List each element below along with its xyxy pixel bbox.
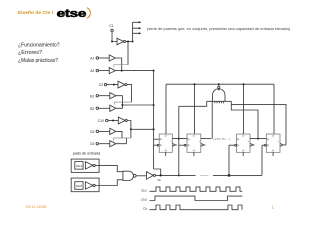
- node B1 label: [90, 94, 94, 98]
- nand input stubs: [215, 101, 224, 103]
- wire: [99, 107, 110, 109]
- wire: [136, 175, 146, 177]
- wire: [127, 85, 132, 103]
- junction: [112, 119, 114, 121]
- FF3 Q wedge: [250, 143, 253, 146]
- waveform labels: [141, 188, 148, 210]
- waveform Ck: [149, 205, 242, 210]
- nand U2 bubble: [133, 174, 136, 177]
- wire FF3 Q: [250, 139, 266, 145]
- wire FF2 clock drop: [193, 84, 195, 134]
- pin A2: [96, 69, 98, 71]
- FF2 bottom stub: [193, 152, 195, 156]
- wire wrap to FF4 EN: [262, 145, 265, 175]
- FF1 Q wedge: [172, 143, 175, 146]
- pin B2: [96, 107, 98, 109]
- node C2 label: [99, 83, 103, 87]
- wire rail to FF4 Q: [231, 104, 286, 145]
- wire FF1 Q riser: [178, 106, 180, 175]
- wire FF1 Q: [172, 139, 187, 145]
- junction: [194, 83, 196, 85]
- pad1 output bubble: [93, 164, 95, 166]
- FF4 pin marks: [267, 135, 279, 151]
- wire: [99, 130, 110, 132]
- FF2 pin marks: [187, 135, 199, 151]
- svg-text:C10: C10: [98, 119, 104, 123]
- node C1 label: [109, 24, 113, 28]
- pads de entrada label: [73, 151, 100, 155]
- wire: [116, 96, 123, 105]
- wire: [116, 138, 127, 144]
- node C10 label: [98, 119, 104, 123]
- pad2 output bubble: [93, 184, 95, 186]
- pin C2: [104, 83, 106, 85]
- wire: [116, 131, 122, 138]
- svg-text:Diseño de CIs I: Diseño de CIs I: [18, 10, 54, 15]
- nand gate U1 (multi-input): [213, 89, 226, 102]
- label 256 ffs: [213, 137, 230, 141]
- wire: [99, 143, 110, 145]
- junction: [178, 174, 180, 176]
- FF1 enable bubble: [157, 144, 159, 146]
- logo paren: [87, 8, 91, 18]
- wire: [95, 180, 123, 186]
- svg-text:A1: A1: [90, 56, 94, 60]
- svg-text:pads de entrada: pads de entrada: [73, 151, 100, 155]
- svg-text:C2: C2: [99, 83, 103, 87]
- FF2 enable bubble: [184, 144, 186, 146]
- svg-text:Ck1: Ck1: [76, 164, 83, 168]
- FF4 enable bubble: [264, 144, 266, 146]
- junction: [257, 138, 259, 140]
- svg-text:B1: B1: [90, 94, 94, 98]
- svg-text:(256 ffs...): (256 ffs...): [213, 137, 230, 141]
- buffer pad2: [85, 182, 93, 189]
- pin B1: [96, 94, 98, 96]
- FF3 bottom stub: [242, 152, 244, 156]
- junction: [218, 83, 220, 85]
- node Ck label: [157, 178, 161, 182]
- waveform Ck2: [149, 196, 242, 200]
- wire FF1 clock drop: [165, 84, 167, 134]
- FF4 Q wedge: [280, 143, 283, 146]
- node D1 label: [90, 130, 94, 134]
- junction: [132, 40, 134, 42]
- svg-text:(serie de puertas que, en conj: (serie de puertas que, en conjunto, pres…: [147, 27, 290, 31]
- inverter U3: [146, 172, 153, 180]
- svg-text:Ck1: Ck1: [141, 188, 147, 192]
- pin D2: [96, 142, 98, 144]
- FF1 pin marks: [160, 135, 172, 151]
- buffer B2: [110, 105, 116, 111]
- junction: [243, 83, 245, 85]
- top rail: [166, 83, 274, 85]
- wire: [108, 119, 118, 121]
- wire Ck line right: [213, 174, 262, 176]
- node dot: [111, 40, 113, 42]
- wire jog: [114, 102, 131, 105]
- node Ck junction: [160, 174, 162, 176]
- inverter C1: [117, 38, 124, 45]
- flip-flop FF1: [159, 134, 172, 152]
- svg-text:Ck: Ck: [157, 178, 161, 182]
- wire rail A: [122, 70, 154, 72]
- wire: [115, 70, 121, 72]
- FF2 Q wedge: [201, 143, 204, 146]
- wire jog: [114, 65, 128, 68]
- wire: [126, 40, 133, 42]
- wire Q2: [206, 138, 212, 140]
- node D2 label: [90, 142, 94, 146]
- wire: [99, 95, 110, 97]
- pad Ck2 box: [71, 178, 99, 192]
- wire: [116, 105, 123, 108]
- nand input bus: [207, 100, 232, 102]
- junction: [178, 138, 180, 140]
- wire: [107, 84, 118, 86]
- svg-text:¿Malas prácticas?: ¿Malas prácticas?: [18, 58, 58, 64]
- svg-text:¿Errores?: ¿Errores?: [18, 50, 42, 56]
- inverter C10: [118, 117, 125, 124]
- buffer A2: [109, 67, 115, 73]
- waveform Ck1: [149, 187, 242, 191]
- wire: [115, 58, 121, 71]
- wire FF4 Q: [283, 144, 286, 146]
- svg-text:¿Funcionamiento?: ¿Funcionamiento?: [18, 42, 60, 48]
- wire wrap to FF3 EN: [229, 145, 235, 175]
- wire: [99, 57, 110, 59]
- wire tap to FF2 EN: [179, 144, 184, 146]
- FF3 enable bubble: [235, 144, 237, 146]
- svg-text:B2: B2: [90, 107, 94, 111]
- pad Ck1 box: [71, 159, 99, 172]
- node A2 label: [90, 69, 94, 73]
- wire right step: [231, 101, 258, 138]
- wire: [99, 70, 110, 72]
- svg-text:A2: A2: [90, 69, 94, 73]
- junction: [121, 104, 123, 106]
- wire FF3 clock drop: [242, 84, 244, 134]
- wire rail B: [122, 104, 153, 106]
- junction: [153, 128, 155, 130]
- junction: [130, 128, 132, 130]
- buffer B1: [110, 93, 116, 99]
- pin C1: [111, 29, 113, 31]
- FF4 bottom stub: [272, 152, 274, 156]
- fanout arrows: [133, 22, 140, 33]
- pin D1: [96, 130, 98, 132]
- wire FF4 clock drop: [273, 84, 275, 134]
- svg-text:29-11-2006: 29-11-2006: [25, 204, 47, 209]
- svg-text:D2: D2: [90, 142, 94, 146]
- inverter U3 bubble: [153, 174, 155, 176]
- flip-flop FF2: [187, 134, 201, 152]
- junction: [121, 70, 123, 72]
- wire: [112, 32, 117, 42]
- wire Ck line: [155, 174, 195, 176]
- wire tree trunk: [154, 71, 161, 176]
- buffer pad1: [85, 162, 93, 169]
- wire FF2 Q riser: [211, 101, 213, 138]
- buffer A1: [109, 55, 115, 61]
- wire: [95, 165, 123, 171]
- svg-text:Ck: Ck: [143, 206, 148, 210]
- FF1 bottom stub: [165, 152, 167, 156]
- buffer D1: [110, 128, 116, 134]
- flip-flop FF3: [236, 134, 250, 152]
- junction: [153, 104, 155, 106]
- junction: [228, 174, 230, 176]
- junction: [153, 70, 155, 72]
- node B2 label: [90, 107, 94, 111]
- wire left step: [179, 101, 207, 106]
- wire: [132, 22, 134, 41]
- wire tap to FF1 D: [154, 138, 160, 140]
- svg-text:etse: etse: [57, 8, 87, 20]
- junction: [127, 40, 129, 42]
- wire jog: [113, 138, 131, 141]
- wire Ck faint segment: [200, 174, 209, 176]
- svg-text:Ck2: Ck2: [76, 184, 83, 188]
- node A1 label: [90, 56, 94, 60]
- pin A1: [96, 57, 98, 59]
- svg-text:C1: C1: [109, 24, 113, 28]
- wire rail D: [131, 128, 154, 130]
- wire: [127, 41, 129, 64]
- wire: [127, 120, 131, 138]
- pin C10: [106, 119, 108, 121]
- flip-flop FF4: [266, 134, 280, 152]
- buffer D2: [110, 141, 116, 147]
- inverter C2: [118, 81, 125, 88]
- svg-text:Ck2: Ck2: [141, 198, 147, 202]
- junction: [113, 84, 115, 86]
- nand gate U2: [123, 171, 134, 180]
- FF3 pin marks: [237, 135, 249, 151]
- wire FF2 Q: [201, 139, 206, 145]
- wire tap to FF1 EN: [154, 144, 158, 146]
- svg-text:D1: D1: [90, 130, 94, 134]
